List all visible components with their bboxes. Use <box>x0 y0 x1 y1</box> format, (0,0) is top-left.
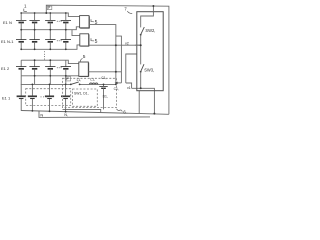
wire converter output riser <box>126 54 137 83</box>
wire converter bottom rail <box>63 109 101 112</box>
wire rail 3 <box>21 45 80 49</box>
callout leader 5 box1 <box>91 19 94 22</box>
wire rail 4 <box>21 60 79 63</box>
svg-text:SW2,: SW2, <box>145 28 155 33</box>
junction dot wireA-wireB <box>115 44 117 46</box>
junction dot bottom bus right <box>153 113 155 115</box>
wire col3 inter-row segment <box>49 76 51 85</box>
svg-text:D1,: D1, <box>103 94 108 98</box>
wire box2 output (net v2) <box>89 44 141 46</box>
svg-text:E1 N: E1 N <box>3 20 12 25</box>
svg-text:L1,: L1, <box>90 78 95 82</box>
wire SW3 bottom link <box>132 88 155 113</box>
arrowhead converter input <box>115 82 118 85</box>
selector box 5 row1 <box>80 16 90 29</box>
battery cell E12 col3 <box>45 60 55 76</box>
junction dot bottom bus col2 <box>32 110 34 112</box>
selector box 5 row2 <box>80 34 89 47</box>
svg-text:P: P <box>66 76 69 81</box>
battery cell E1N-1 col3 <box>45 30 55 50</box>
wire load box bottom drop <box>138 91 140 114</box>
junction dot SW3 link <box>140 87 142 89</box>
junction dots rail1 <box>20 12 66 14</box>
wire rail 1 <box>21 13 79 16</box>
capacitor C1 <box>99 84 107 109</box>
switch SW3 <box>140 64 144 73</box>
wire top bus (net 7) <box>46 5 169 114</box>
junction dot box3 output <box>115 71 117 73</box>
battery cell E11 col1 <box>17 84 26 110</box>
wire top bus drop <box>141 6 154 27</box>
node P (converter input) <box>65 77 70 81</box>
wire box1 output jog <box>116 36 122 83</box>
wire rail 6 right segment <box>80 83 116 85</box>
inductor L1 <box>90 83 98 84</box>
ellipsis dots row4 <box>41 96 47 97</box>
ellipsis dots row3 <box>57 67 62 68</box>
svg-text:1: 1 <box>24 4 27 9</box>
dashed box SW1 D1 unit <box>73 89 98 106</box>
wire col1 inter-row segment <box>20 76 22 85</box>
battery cell E1N col4 <box>61 13 71 30</box>
battery cell E1N col1 <box>16 13 26 30</box>
battery cell E12 col2 <box>29 60 39 76</box>
ellipsis dots row1 <box>57 21 62 22</box>
svg-text:C1,: C1, <box>101 76 106 80</box>
wire box1 output <box>89 25 116 85</box>
wire box3 output <box>88 71 121 73</box>
battery cell E1N col3 <box>45 13 55 30</box>
junction dots rail6 <box>32 84 117 86</box>
callout leader 7 <box>127 11 132 13</box>
svg-text:E1 N-1: E1 N-1 <box>1 39 14 44</box>
wire col4 inter-row segment <box>65 76 67 85</box>
svg-text:5: 5 <box>83 54 86 60</box>
switch SW1 <box>70 82 81 85</box>
ellipsis dots row2 <box>57 40 62 41</box>
wire SW2 to v2 tap <box>140 35 142 65</box>
battery cell E12 col4 <box>61 60 71 76</box>
svg-text:7: 7 <box>124 7 127 12</box>
battery cell E1N-1 col2 <box>29 30 39 50</box>
dashed box battery module E11 <box>26 89 71 106</box>
callout leader 5 box3 <box>80 58 82 61</box>
callout leader 5 box2 <box>91 38 94 41</box>
wire v2 tap <box>135 44 141 46</box>
wire rail 6 converter input <box>21 83 71 85</box>
wire rail 5 <box>21 75 79 77</box>
junction dot bottom bus cell4 <box>65 111 67 113</box>
svg-text:E1 1: E1 1 <box>2 95 11 100</box>
svg-text:5: 5 <box>95 20 98 26</box>
switch SW2 <box>140 27 145 36</box>
battery cell E1N-1 col1 <box>16 30 26 50</box>
battery cell E11 col3 <box>45 84 54 111</box>
battery cell E11 col4 <box>61 84 70 111</box>
svg-text:E1 2: E1 2 <box>1 66 10 71</box>
callout leader 6 <box>117 109 123 112</box>
battery cell E12 col1 <box>16 60 26 76</box>
svg-text:N: N <box>40 113 43 118</box>
wire return line <box>39 111 150 118</box>
svg-text:L1,: L1, <box>77 78 82 82</box>
dashed box converter 6 <box>63 78 117 107</box>
battery cell E11 col2 <box>28 84 37 111</box>
junction dots rail4 <box>34 59 52 61</box>
battery cell E1N col2 <box>29 13 39 30</box>
wire rail 2 <box>21 27 79 30</box>
svg-text:SW1, D1,: SW1, D1, <box>74 91 89 95</box>
battery cell E1N-1 col4 <box>61 30 71 50</box>
junction dots rail3 <box>20 48 66 50</box>
wire bottom bus (node N) <box>21 111 169 115</box>
wire converter output jog <box>126 83 132 88</box>
wire col2 inter-row segment <box>34 76 36 85</box>
svg-text:C1,: C1, <box>114 87 119 91</box>
selector box 5 row3 <box>79 62 89 77</box>
junction dots rail5 <box>34 75 67 77</box>
wire SW3 bottom <box>140 72 142 89</box>
svg-text:5: 5 <box>95 39 98 45</box>
load box 7 <box>137 12 163 91</box>
svg-text:v2: v2 <box>125 41 129 45</box>
callout leader 1 <box>24 9 27 12</box>
junction dot top bus <box>152 5 154 7</box>
wire rail 2 to box2 input <box>72 30 80 36</box>
svg-text:SW3,: SW3, <box>144 67 154 72</box>
node P (top) <box>47 6 52 10</box>
junction dots rail2 <box>20 29 66 31</box>
ellipsis dots column break <box>44 51 45 59</box>
svg-text:N,: N, <box>64 113 68 117</box>
svg-text:v1: v1 <box>127 86 131 90</box>
wire converter feed arrow shaft <box>117 82 121 84</box>
junction dot bottom bus col3 <box>49 110 51 112</box>
junction dot v2 tap <box>140 44 142 46</box>
